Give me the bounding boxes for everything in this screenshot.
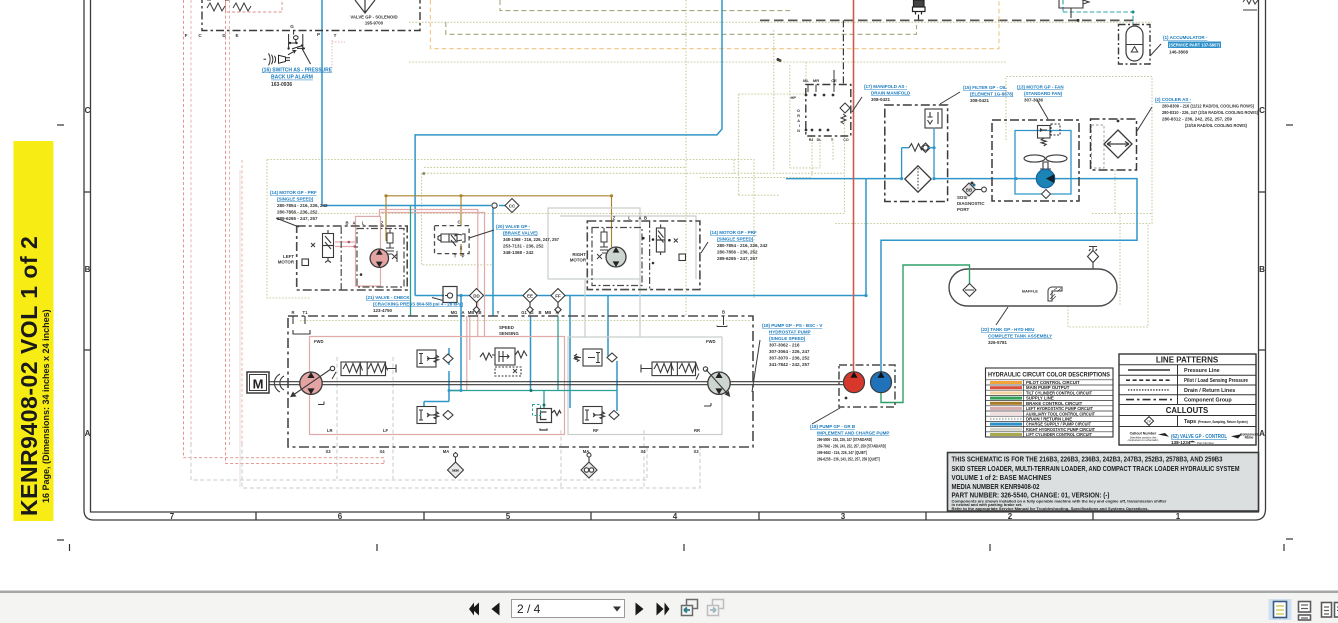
svg-text:307-3036: 307-3036 [1024,98,1044,103]
right servo assembly [641,362,711,406]
svg-text:HH: HH [452,468,459,473]
filter element diamond [905,166,931,192]
prev-view icon [682,600,698,616]
svg-text:MG: MG [451,310,458,315]
brake valve spool [438,234,465,246]
svg-text:(SERVICE PART 137-5807): (SERVICE PART 137-5807) [1169,43,1220,48]
swatch left hydrostatic [990,407,1022,410]
svg-text:SOS/: SOS/ [957,195,968,200]
reg mark bottom 2 [683,544,685,551]
alarm leader line [302,49,311,65]
accumulator teal dashed line [1063,0,1133,25]
svg-text:T1: T1 [303,310,309,315]
svg-text:(13) MOTOR GP - FAN: (13) MOTOR GP - FAN [1017,85,1064,90]
svg-text:Z: Z [613,216,616,221]
fan motor circle [1036,169,1054,187]
svg-text:Refer to the appropriate Servi: Refer to the appropriate Service Manual … [952,506,1149,511]
tap FF [551,289,565,315]
right motor callout leader [701,242,708,253]
svg-text:Pressure Line: Pressure Line [1184,368,1220,374]
supply green line tank to charge pump [881,265,970,403]
charge pump blue circle [871,372,892,393]
brake valve leader [469,230,494,238]
brake valve group box [435,226,470,254]
reg mark left lower tick [69,544,71,551]
svg-text:CC: CC [509,204,516,209]
right relief valve lower [583,407,619,424]
svg-text:341-7842 - 242, 257: 341-7842 - 242, 257 [769,362,810,367]
alarm T port dotted [332,40,345,68]
svg-text:E: E [235,33,238,38]
svg-text:Pilot / Load Sensing Pressure: Pilot / Load Sensing Pressure [1184,378,1248,384]
svg-text:B: B [538,310,541,315]
single page view icon (active) [1269,599,1292,620]
svg-text:LINE PATTERNS: LINE PATTERNS [1156,356,1219,365]
page number input box [512,600,625,618]
svg-text:(21) VALVE - CHECK: (21) VALVE - CHECK [366,295,410,300]
swatch main pump output [990,386,1022,389]
svg-text:6: 6 [338,512,343,521]
fan relief valve [1038,124,1061,146]
svg-text:348-1368 - 216, 226, 247, 257: 348-1368 - 216, 226, 247, 257 [503,237,559,242]
svg-text:HYDROSTAT PUMP: HYDROSTAT PUMP [769,330,811,335]
svg-text:195-9700: 195-9700 [365,21,384,26]
svg-text:PORT: PORT [957,207,970,212]
svg-text:307-3070 - 236, 252: 307-3070 - 236, 252 [769,356,810,361]
gray fwd box [568,337,722,435]
svg-text:(BRAKE VALVE): (BRAKE VALVE) [503,231,538,236]
svg-text:G: G [290,24,294,29]
svg-text:LEFT HYDROSTATIC PUMP CIRCUIT: LEFT HYDROSTATIC PUMP CIRCUIT [1026,406,1093,411]
left motor divider dashdot [340,227,342,290]
manifold as drain manifold box [806,85,851,137]
svg-text:LEFT: LEFT [283,254,294,259]
svg-text:F: F [185,33,188,38]
left hydrostatic pink rect inner [356,216,381,286]
svg-text:DRAIN MANIFOLD: DRAIN MANIFOLD [871,91,911,96]
right motor divider dashdot [649,221,651,290]
port diamond EE drop [527,307,533,313]
T1 bracket [293,316,310,334]
pressure switch backup alarm symbol [288,30,305,54]
svg-text:IMPLEMENT AND CHARGE PUMP: IMPLEMENT AND CHARGE PUMP [817,431,889,436]
svg-text:296-5806 - 216, 226, 247 (STAN: 296-5806 - 216, 226, 247 (STANDARD) [817,437,872,442]
svg-text:163-0936: 163-0936 [271,82,292,88]
svg-text:G: G [530,310,533,315]
fan motor group box [992,120,1079,201]
check valve leader [432,298,443,301]
swatch tilt cylinder [990,391,1022,394]
svg-text:HYDRAULIC CIRCUIT COLOR DESCRI: HYDRAULIC CIRCUIT COLOR DESCRIPTIONS [988,372,1110,379]
svg-text:G1: G1 [521,310,527,315]
brake control olive line [386,196,612,256]
svg-text:(22) TANK GP - HYD HEU: (22) TANK GP - HYD HEU [981,327,1034,332]
valve symbol fragment 1 [207,0,229,11]
svg-text:(CRACKING PRESS 804-5/8 psi 4: (CRACKING PRESS 804-5/8 psi 4 - 28 kPa) [373,302,464,307]
svg-text:TP: TP [1147,420,1152,424]
toolbar background [0,593,1338,623]
svg-text:RIGHT: RIGHT [572,252,586,257]
svg-text:LIFT CYLINDER CONTROL CIRCUIT: LIFT CYLINDER CONTROL CIRCUIT [1026,432,1092,437]
svg-text:X4: X4 [640,449,646,454]
charge pump callout leader [812,408,840,424]
pump box bottom port letters [325,449,699,454]
port diamond DD drop [473,307,479,313]
svg-text:Y: Y [497,310,500,315]
svg-text:L: L [362,221,365,226]
svg-text:280-8310 - 226, 247 (2/16 RAD/: 280-8310 - 226, 247 (2/16 RAD/OIL COOLIN… [1162,110,1258,115]
taps diamond symbol [1144,417,1153,426]
svg-text:FF: FF [555,294,561,299]
gray dashed return path 2 [242,443,700,488]
manifold check valve [840,103,850,124]
svg-text:SKID STEER LOADER, MULTI-TERRA: SKID STEER LOADER, MULTI-TERRAIN LOADER,… [952,464,1240,473]
reg mark right upper [1286,124,1293,126]
right motor speed valve [600,228,608,253]
svg-text:16 Page, (Dimensions: 34 inche: 16 Page, (Dimensions: 34 inches x 24 inc… [41,309,51,503]
left motor group box [297,226,408,290]
svg-text:280-8309 - 216 (11/12 RAD/OIL: 280-8309 - 216 (11/12 RAD/OIL COOLING RO… [1162,104,1254,109]
right motor spool valve [656,225,685,261]
svg-text:CO: CO [843,138,849,142]
charge pump group box [839,365,895,407]
svg-text:MA: MA [443,449,450,454]
svg-text:280-7856 - 236, 252: 280-7856 - 236, 252 [717,250,758,255]
filter bypass valve [925,109,942,128]
next-view icon (disabled) [708,600,724,616]
svg-text:280-7854 - 216, 226, 242: 280-7854 - 216, 226, 242 [277,203,328,208]
teal charge relief bus [449,316,617,408]
alarm horn [264,53,291,65]
right motor symbol circle [606,247,626,267]
corner component top right [1243,0,1258,10]
tank callout leader [996,307,1008,325]
left relief valve lower [417,407,453,424]
charge blue line upper loop [415,0,722,296]
svg-text:A: A [461,310,464,315]
svg-text:307-3064 - 226, 247: 307-3064 - 226, 247 [769,349,810,354]
svg-text:(14) MOTOR GP - PRF: (14) MOTOR GP - PRF [710,230,757,235]
right pump swash arrow [706,370,730,397]
svg-text:2 / 4: 2 / 4 [517,602,541,616]
charge pump connect dot [845,397,848,400]
electric motor M box [247,372,269,393]
continuous view icon [1299,602,1311,621]
prev-page button [492,603,500,616]
oil filter group box [885,105,948,202]
right relief valve upper [574,349,617,366]
svg-text:DD: DD [473,294,480,299]
valve symbol fragment 2 [233,3,251,11]
svg-text:MOTOR: MOTOR [278,260,295,265]
svg-text:(19) PUMP GP - PS - BSC - V: (19) PUMP GP - PS - BSC - V [762,323,822,328]
tap CC [492,199,519,213]
aux red dashed box top [226,0,283,12]
svg-text:5: 5 [506,512,511,521]
svg-text:D: D [797,109,800,113]
swatch charge supply [990,423,1022,426]
svg-text:138-1234: 138-1234 [1171,440,1191,445]
svg-text:P: P [317,32,320,37]
auxiliary light pink lines [239,170,241,487]
svg-text:VALVE GP - SOLENOID: VALVE GP - SOLENOID [350,15,397,20]
svg-text:HP: HP [790,95,796,100]
svg-text:259-7842 - 236, 243, 252, 257,: 259-7842 - 236, 243, 252, 257, 259 (STAN… [817,444,886,449]
two page view icon [1322,603,1338,618]
filter callout leader [940,92,960,104]
svg-text:280-8312 - 236, 242, 252, 257,: 280-8312 - 236, 242, 252, 257, 259 [1162,117,1233,122]
svg-text:123-4750: 123-4750 [373,308,393,313]
svg-text:SENSING: SENSING [499,331,519,336]
reg mark right lower tick [1283,544,1285,551]
swatch brake control [990,402,1022,405]
svg-text:FWD: FWD [706,339,716,344]
manifold CE dash-dot riser [842,20,844,84]
cooler group box [1091,119,1137,170]
svg-text:B: B [85,265,91,274]
svg-text:(16) SWITCH AS - PRESSURE: (16) SWITCH AS - PRESSURE [262,68,333,74]
check valve box [443,287,457,303]
tap DD [470,289,484,315]
svg-text:B: B [1259,265,1265,274]
svg-text:C: C [457,220,460,225]
svg-text:(SINGLE SPEED): (SINGLE SPEED) [769,336,806,341]
svg-text:C: C [1259,106,1265,115]
svg-text:M: M [253,377,264,392]
aux pink dashed line [191,0,242,445]
junction dots [422,172,425,175]
tap HH [448,452,464,478]
svg-text:Part Number: Part Number [1197,441,1214,445]
svg-text:(SINGLE SPEED): (SINGLE SPEED) [277,197,314,202]
svg-text:T: T [454,254,457,259]
svg-text:280-7856 - 236, 252: 280-7856 - 236, 252 [277,210,318,215]
fan blue circuit rect [1015,131,1071,195]
charge blue line cooler drop [881,179,1137,372]
svg-text:Callout Number: Callout Number [1130,432,1157,436]
svg-text:146-3808: 146-3808 [1169,50,1189,55]
sample pressure line [1128,369,1170,371]
svg-text:B: B [478,310,481,315]
right motor group box [587,221,700,290]
reg mark bottom 1 [376,544,378,551]
accumulator leader [1150,44,1161,56]
gray-olive dashed net [446,0,917,34]
left servo assembly [330,362,396,379]
svg-text:289-6265 - 247, 257: 289-6265 - 247, 257 [277,216,318,221]
hydraulic circuit color descriptions table [986,368,1114,437]
left motor spool valve [302,230,334,266]
svg-text:COMPLETE TANK ASSEMBLY: COMPLETE TANK ASSEMBLY [988,334,1052,339]
svg-text:MR: MR [813,78,819,83]
svg-text:348-1368 - 242: 348-1368 - 242 [503,250,534,255]
svg-text:T: T [334,33,337,38]
toolbar top border [0,591,1338,594]
tank breather [1088,247,1099,270]
svg-text:269-9462 - 216, 226, 347 (QUIE: 269-9462 - 216, 226, 347 (QUIET) [817,450,867,455]
svg-text:KENR9408-02 VOL 1 of 2: KENR9408-02 VOL 1 of 2 [16,236,42,516]
svg-text:B: B [345,221,348,226]
tank internal diamond [963,284,976,297]
svg-text:ML: ML [803,78,809,83]
svg-text:(1) ACCUMULATOR -: (1) ACCUMULATOR - [1163,35,1208,40]
charge relief valve center [533,405,562,431]
svg-text:RF: RF [593,428,599,433]
charge blue pump feed verticals [531,296,618,412]
reg mark bottom 3 [989,544,991,551]
page dropdown arrow [613,607,621,612]
tap BB sos port [963,183,987,196]
svg-text:(STANDARD FAN): (STANDARD FAN) [1024,91,1063,96]
last-page button [657,603,670,616]
valve group top box dash-dot [202,0,420,31]
fan propeller [1024,155,1067,169]
svg-text:A: A [1259,429,1265,438]
grid col dividers bottom [255,512,257,520]
svg-text:FWD: FWD [314,339,324,344]
left relief valve upper [417,350,453,367]
tank green inlet segment [969,268,971,284]
filter connections [902,128,934,179]
cooler diamond [1104,130,1132,158]
charge blue speed sensing drop [424,296,461,407]
svg-text:B: B [644,216,647,221]
swatch lift cylinder [990,433,1022,436]
gear pump red circle [844,372,865,393]
next-page button [636,603,644,616]
svg-text:MB: MB [468,310,475,315]
svg-text:(17) MANIFOLD AS -: (17) MANIFOLD AS - [864,84,908,89]
svg-text:BACK UP ALARM: BACK UP ALARM [271,75,313,81]
left hydrostatic pink valve link [335,210,379,247]
tap GG [581,452,597,478]
svg-text:Drain / Return Lines: Drain / Return Lines [1184,388,1235,394]
load sensing black dashed bus [760,19,1134,21]
left pump swash arrow [291,369,331,397]
svg-text:(SINGLE SPEED): (SINGLE SPEED) [717,237,754,242]
svg-text:MA: MA [583,449,590,454]
fan drain diamond [1042,190,1051,199]
pump box top port letters [291,310,725,316]
tap EE [523,289,537,315]
reg mark left upper [57,124,64,126]
svg-text:Z: Z [381,221,384,226]
grid row divider left B/A [84,349,91,351]
svg-text:B: B [722,310,725,315]
svg-text:3: 3 [841,512,846,521]
pink fwd box [310,337,565,435]
svg-text:(15) FILTER GP - OIL: (15) FILTER GP - OIL [963,85,1007,90]
svg-text:4: 4 [673,512,678,521]
accumulator body [1126,26,1143,61]
svg-text:LR: LR [327,428,333,433]
svg-text:253-7131 - 236, 252: 253-7131 - 236, 252 [503,244,544,249]
svg-text:EE: EE [527,294,533,299]
page inner border [91,0,1259,512]
swatch drain return dotted [990,418,1022,420]
svg-text:L: L [628,216,631,221]
first-page button [469,603,479,616]
svg-text:308-0421: 308-0421 [970,98,990,103]
reg mark left lower [57,539,64,541]
sample component group dashdot [1126,399,1172,401]
manifold leader [852,97,862,112]
svg-text:A: A [797,119,800,123]
yellow volume banner [14,141,54,521]
svg-text:1: 1 [1176,512,1181,521]
pump drain bracket [318,402,324,405]
line patterns / callouts table [1119,354,1256,445]
svg-text:DIAGNOSTIC: DIAGNOSTIC [957,201,985,206]
svg-text:A: A [352,221,355,226]
svg-text:DL: DL [817,138,823,142]
svg-text:2: 2 [1008,512,1013,521]
svg-text:280-7854 - 216, 226, 242: 280-7854 - 216, 226, 242 [717,243,768,248]
svg-text:THIS SCHEMATIC IS FOR THE 216B: THIS SCHEMATIC IS FOR THE 216B3, 226B3, … [952,455,1223,464]
svg-text:7: 7 [170,512,175,521]
drive shaft double line [269,382,844,385]
charge blue line horizontal bus [415,179,866,296]
svg-text:A: A [638,216,641,221]
svg-text:308-0421: 308-0421 [871,97,891,102]
page outer border [84,0,1266,520]
swatch pilot control [990,381,1022,384]
swatch supply line [990,397,1022,400]
svg-text:RR: RR [694,428,700,433]
svg-text:X4: X4 [379,449,385,454]
pump gp callout leader [752,340,760,392]
svg-text:R: R [291,310,294,315]
svg-text:Name: Name [1245,436,1254,440]
svg-text:P: P [462,254,465,259]
pilot valve component top center [913,0,926,20]
svg-text:N: N [797,129,800,133]
charge blue line filter feed [786,178,1071,180]
hydrostat pump group box [288,316,753,447]
fan callout leader [1037,100,1048,119]
svg-text:CALLOUTS: CALLOUTS [1166,406,1208,415]
svg-text:Component Group: Component Group [1184,398,1232,404]
manifold ports top [808,70,834,92]
svg-text:289-6265 - 247, 257: 289-6265 - 247, 257 [717,256,758,261]
svg-text:326-5781: 326-5781 [988,340,1008,345]
left motor callout leader [276,218,299,227]
svg-text:A: A [85,429,91,438]
svg-text:X: X [460,246,463,251]
svg-text:LF: LF [383,428,389,433]
svg-text:MEDIA NUMBER KENR9408-02: MEDIA NUMBER KENR9408-02 [952,484,1040,491]
svg-text:CE: CE [831,78,837,83]
port B stub [717,317,727,327]
svg-text:X3: X3 [693,449,699,454]
left hydrostatic pink risers [379,210,484,391]
left motor symbol circle [370,249,388,267]
tank baffle symbol [1048,287,1062,301]
hydraulic tank body [949,269,1117,306]
left motor inner box [357,229,404,288]
right motor inner box [592,228,642,286]
gray dashed box around X ports left [337,357,393,479]
grid row divider right C/B [1259,191,1266,193]
svg-text:(14) MOTOR GP - PRF: (14) MOTOR GP - PRF [270,190,317,195]
svg-text:I: I [799,124,800,128]
schematic info box [948,453,1259,512]
right pump circle [708,372,730,394]
svg-text:X3: X3 [325,449,331,454]
svg-text:MB: MB [545,310,552,315]
svg-text:SPEED: SPEED [499,325,514,330]
cooler inner dashed rect [1092,125,1105,168]
